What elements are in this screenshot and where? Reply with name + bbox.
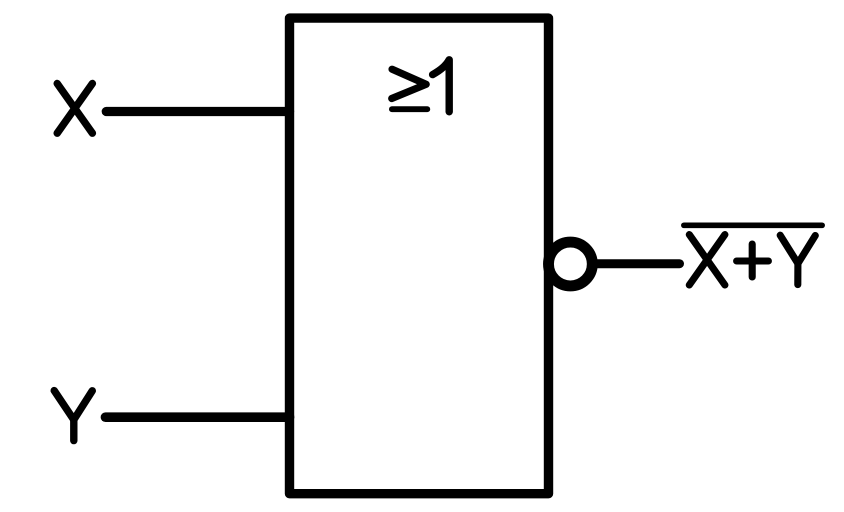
overline (NOT bar) — [684, 222, 822, 228]
output wire — [595, 259, 680, 268]
output label X+Y — [689, 235, 815, 285]
gate function label ≥1 — [392, 60, 450, 112]
input wire X — [106, 107, 289, 116]
node label Y — [54, 391, 92, 441]
NOR gate body U1 — [290, 18, 549, 494]
inversion bubble — [549, 242, 593, 286]
node label X — [57, 84, 92, 134]
input wire Y — [106, 412, 290, 422]
